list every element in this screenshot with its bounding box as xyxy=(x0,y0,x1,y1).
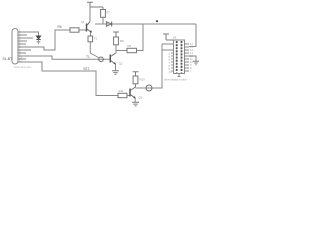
IC U1 body xyxy=(174,40,185,74)
wire right rail x196 down from y24 xyxy=(189,24,196,47)
resistor R10 xyxy=(133,76,145,84)
wire main horizontal net y24 xyxy=(95,23,196,25)
svg-text:BT2: BT2 xyxy=(84,67,90,71)
IC U1 label xyxy=(173,36,177,40)
resistor R6 xyxy=(70,28,79,32)
svg-text:driver display module: driver display module xyxy=(164,79,187,82)
diode D2 xyxy=(36,36,41,40)
svg-text:R8: R8 xyxy=(120,39,124,43)
power rail VCC2 xyxy=(113,32,119,37)
power rail VCC4 xyxy=(133,72,139,76)
wire IC right pin to ground xyxy=(189,56,196,61)
wire R11 to Q3 base xyxy=(127,95,130,97)
caption text under connector xyxy=(14,66,33,69)
transistor Q3 xyxy=(130,87,143,99)
wire R6 to Q1 base xyxy=(79,29,86,31)
IC right pin stubs xyxy=(185,42,194,73)
IC caption below xyxy=(164,79,187,82)
component X1 on Q1 emitter xyxy=(88,32,98,41)
junction circle J2 xyxy=(99,57,104,62)
label R6 xyxy=(58,25,62,29)
wire R10 bottom to Q3 collector node xyxy=(135,84,137,88)
svg-text:U1: U1 xyxy=(173,36,177,40)
svg-text:R10: R10 xyxy=(140,78,146,82)
label T1 xyxy=(86,55,90,59)
resistor R9 xyxy=(127,44,137,53)
wire lamp to x162 riser up to IC xyxy=(152,44,162,88)
diode D1 xyxy=(106,22,111,27)
IC bottom stub xyxy=(178,74,181,77)
ground under D2 xyxy=(37,40,41,44)
label SL-BT xyxy=(3,57,13,61)
wire X1 down to junction circle xyxy=(90,42,99,58)
wire Q2 emitter down xyxy=(115,64,117,70)
resistor R7 xyxy=(101,10,106,18)
resistor R11 xyxy=(118,89,127,98)
wire R9 to x143 riser up to y24 net xyxy=(137,24,144,51)
svg-text:Q2: Q2 xyxy=(119,61,123,65)
svg-text:Q1: Q1 xyxy=(81,20,85,24)
power rail VCC1 xyxy=(87,2,103,21)
wire pin1 to diode D2 xyxy=(36,32,39,36)
resistor R8 xyxy=(114,37,124,45)
wire R8 bottom to Q2 collector node xyxy=(115,45,117,53)
transistor Q1 xyxy=(81,20,92,32)
wire x162 stubs to IC pins xyxy=(162,44,174,50)
svg-text:switch lamp assy: switch lamp assy xyxy=(14,66,33,69)
ground GND3 xyxy=(132,102,139,106)
IC left pin stubs lower xyxy=(171,53,174,71)
connector SL-BT body xyxy=(12,29,18,65)
svg-text:R7: R7 xyxy=(107,11,111,15)
power rail VCC3 xyxy=(163,34,174,40)
ground GND2 xyxy=(112,71,119,75)
wire Q3 collector node to lamp xyxy=(136,87,153,89)
svg-text:R9: R9 xyxy=(128,44,132,48)
svg-text:R11: R11 xyxy=(119,89,124,93)
svg-text:R6: R6 xyxy=(58,25,62,29)
label BT2 xyxy=(84,67,90,71)
svg-text:SL-BT: SL-BT xyxy=(3,57,13,61)
transistor Q2 xyxy=(110,53,123,65)
node dot near 157,21 xyxy=(156,20,158,22)
wire Q3 emitter down xyxy=(134,98,136,102)
wire pin6 staircase to R6 xyxy=(18,30,70,50)
lamp L1 xyxy=(146,85,152,91)
connector pin stubs with pin numbers xyxy=(18,28,36,62)
wire net T1 y59.5 xyxy=(18,56,110,59)
svg-text:T1: T1 xyxy=(86,55,90,59)
IC left pin numbers xyxy=(169,52,172,74)
svg-text:Q3: Q3 xyxy=(139,95,143,99)
wire VCC1 branch down to R7 xyxy=(102,7,104,10)
label R7 xyxy=(107,11,111,15)
wire collector node branch to R9 xyxy=(116,50,127,52)
ground GND5 xyxy=(193,61,199,64)
wire R7 bottom to node xyxy=(102,17,104,24)
wire net BT2 staircase xyxy=(18,62,118,96)
